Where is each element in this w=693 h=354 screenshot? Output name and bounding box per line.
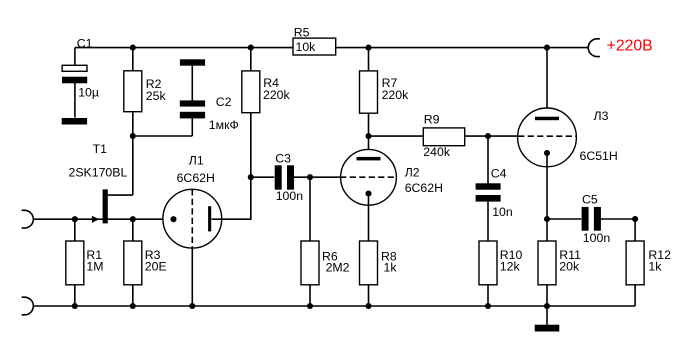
node junction R9/C4/L3 grid [485, 133, 491, 139]
node junction rail/L1 cathode [189, 303, 195, 309]
resistor R10 bottom lead [487, 285, 489, 306]
resistor R2 [124, 71, 142, 112]
svg-text:Л1: Л1 [189, 154, 204, 168]
node +220B output terminal [588, 39, 600, 57]
node junction rail/R10 bottom [485, 303, 491, 309]
node L3 cathode dot [544, 150, 550, 156]
ground bar below C1 [62, 118, 87, 125]
ground symbol [535, 325, 560, 332]
svg-text:10k: 10k [296, 40, 317, 54]
transistor T1 channel bar [103, 189, 108, 223]
svg-text:2M2: 2M2 [326, 261, 350, 275]
capacitor C1 bottom lead [74, 83, 76, 118]
tube L1 envelope [163, 189, 222, 248]
wire L3 grid lead [488, 135, 518, 137]
wire R7 bottom to L2 anode [368, 113, 370, 157]
capacitor C5 right plate [594, 207, 601, 231]
capacitor C1 negative plate [62, 77, 87, 84]
tube L2 anode bar [357, 157, 381, 161]
resistor R3 [124, 241, 142, 285]
node L2 cathode dot [365, 190, 371, 196]
svg-text:6С51Н: 6С51Н [580, 149, 618, 163]
resistor R12 bottom lead [634, 285, 636, 306]
svg-text:240k: 240k [423, 145, 451, 159]
svg-text:+220В: +220В [607, 37, 653, 54]
resistor R12 top lead [634, 219, 636, 241]
wire C2 lower stem [191, 118, 193, 136]
wire C4 top lead [487, 136, 489, 183]
tube L1 anode bar [208, 206, 211, 231]
svg-text:100n: 100n [583, 231, 611, 245]
wire C5 left lead [547, 218, 581, 220]
node junction R4/L1 anode/C3 [248, 174, 254, 180]
node junction R7/R9/L2 anode [365, 133, 371, 139]
node junction rail/R3 bottom [130, 303, 136, 309]
svg-text:20k: 20k [559, 260, 580, 274]
wire C2 link [133, 135, 193, 137]
svg-text:C1: C1 [77, 36, 93, 50]
svg-text:1M: 1M [86, 260, 103, 274]
transistor T1 gate arrow [92, 216, 99, 223]
wire L1 anode to R4 junction [212, 177, 251, 219]
node junction C3/R6/L2 grid [307, 174, 313, 180]
node junction cathode/C5/R11 [544, 216, 550, 222]
resistor R9 [423, 128, 464, 146]
tube L1 grid dashed line [191, 189, 193, 248]
resistor R3 bottom lead [132, 285, 134, 306]
svg-text:25k: 25k [146, 89, 167, 103]
capacitor C1 top lead [74, 48, 76, 66]
wire L3 anode to rail [546, 48, 548, 117]
resistor R1 top lead [74, 219, 76, 241]
tube L3 anode bar [535, 117, 559, 121]
node input terminal top [22, 210, 34, 228]
wire L2 grid lead [310, 176, 340, 178]
svg-text:6С62Н: 6С62Н [405, 181, 443, 195]
node junction rail/R4 [248, 45, 254, 51]
resistor R6 [301, 241, 319, 285]
svg-text:12k: 12k [500, 260, 521, 274]
wire L1 cathode to ground rail [191, 248, 193, 306]
node junction rail/L3 anode [544, 45, 550, 51]
resistor R4 bottom lead [250, 113, 252, 178]
svg-text:10n: 10n [492, 205, 513, 219]
wire L2 cathode to R8 [368, 194, 370, 242]
resistor R8 [360, 241, 378, 285]
node junction T1 source/R3 [130, 216, 136, 222]
capacitor C2 upper plate [180, 100, 205, 106]
wire C5 right lead [601, 218, 636, 220]
resistor R4 top lead [250, 48, 252, 71]
wire C3 left lead [251, 176, 274, 178]
resistor R6 top lead [309, 177, 311, 241]
wire C2 upper stem [191, 66, 193, 101]
capacitor C4 upper plate [476, 183, 501, 189]
node junction rail/ground [544, 303, 550, 309]
svg-text:T1: T1 [93, 142, 108, 156]
wire top rail right segment [336, 47, 589, 49]
resistor R11 bottom lead [546, 285, 548, 306]
wire top rail left segment [75, 47, 293, 49]
wire ground stub [546, 306, 548, 325]
svg-text:R5: R5 [294, 25, 310, 39]
resistor R2 top lead [132, 48, 134, 71]
wire T1 drain horizontal [108, 194, 133, 196]
resistor R8 bottom lead [368, 285, 370, 306]
svg-text:20E: 20E [145, 260, 167, 274]
capacitor C3 right plate [287, 165, 294, 189]
resistor R11 [538, 241, 556, 285]
wire R9 right lead [465, 135, 488, 137]
node junction rail/R7 [365, 45, 371, 51]
svg-text:1k: 1k [648, 260, 662, 274]
wire L3 cathode down [546, 153, 548, 241]
resistor R1 bottom lead [74, 285, 76, 306]
node input terminal bottom [22, 297, 34, 315]
resistor R4 [242, 71, 260, 113]
tube L3 envelope [518, 108, 577, 167]
node junction rail/R2 [130, 45, 136, 51]
capacitor C1 positive plate [62, 65, 87, 71]
svg-text:1k: 1k [384, 261, 398, 275]
node junction rail/R6 bottom [307, 303, 313, 309]
svg-text:2SK170BL: 2SK170BL [69, 165, 128, 179]
resistor R6 bottom lead [309, 285, 311, 306]
capacitor C5 left plate [582, 207, 589, 231]
resistor R3 top lead [132, 219, 134, 241]
svg-text:C4: C4 [491, 166, 507, 180]
wire R9 left lead [369, 135, 424, 137]
svg-text:C2: C2 [216, 95, 232, 109]
svg-text:Л2: Л2 [405, 165, 420, 179]
capacitor C2 lower plate [180, 112, 205, 119]
wire bottom ground rail [33, 305, 635, 307]
svg-text:220k: 220k [263, 88, 291, 102]
tube L3 grid dashed line [518, 135, 576, 137]
resistor R12 [626, 241, 644, 285]
tube L2 grid dashed line [340, 176, 397, 178]
svg-text:C3: C3 [275, 152, 291, 166]
svg-text:6С62Н: 6С62Н [177, 171, 215, 185]
svg-text:1мкФ: 1мкФ [209, 118, 239, 132]
tube L2 envelope [341, 149, 397, 205]
wire C4 bottom lead [487, 202, 489, 241]
capacitor C4 lower plate [476, 195, 501, 202]
node junction R2/C2 [130, 133, 136, 139]
wire input signal [33, 218, 173, 220]
resistor R10 [479, 241, 497, 285]
capacitor C3 left plate [275, 165, 282, 189]
resistor R5 [293, 38, 336, 55]
resistor R7 [360, 71, 378, 113]
resistor R7 top lead [368, 48, 370, 71]
node junction rail/R8 bottom [365, 303, 371, 309]
node junction C5/R12 [632, 216, 638, 222]
svg-text:R9: R9 [424, 112, 440, 126]
svg-text:220k: 220k [382, 88, 410, 102]
node junction rail/R1 bottom [72, 303, 78, 309]
svg-text:100n: 100n [276, 189, 304, 203]
resistor R1 [66, 241, 84, 285]
svg-text:10µ: 10µ [78, 85, 99, 99]
ground bar above C2 [180, 59, 205, 65]
node junction input/R1 [72, 216, 78, 222]
svg-text:Л3: Л3 [594, 109, 609, 123]
wire R2 bottom to T1 drain [132, 112, 134, 195]
wire C3 right lead [294, 176, 310, 178]
node L1 grid dot [170, 216, 176, 222]
svg-text:C5: C5 [582, 192, 598, 206]
